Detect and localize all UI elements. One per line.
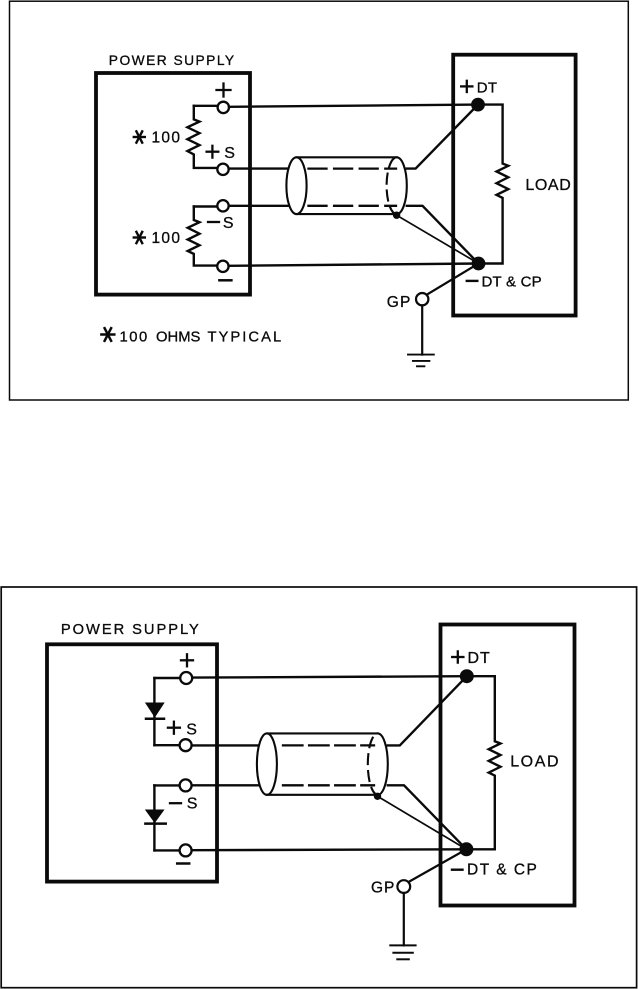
svg-text:LOAD: LOAD [525,177,571,194]
figure 1 border frame [10,1,629,400]
svg-text:DT: DT [477,79,498,96]
wire +S to cable [229,167,288,169]
cable shield cylinder [286,157,406,214]
note *100 OHMS TYPICAL [101,328,114,341]
label -S [208,221,219,223]
svg-text:DT & CP: DT & CP [467,862,538,879]
wire + to +DT fig2 [192,676,467,677]
svg-text:100: 100 [152,130,182,147]
label + fig2 [181,654,193,666]
svg-text:GP: GP [371,880,395,897]
power supply box PS2 [47,644,217,881]
label +DT fig2 [452,651,463,662]
conductor (dashed, -S line inside cable) fig2 [283,784,374,786]
node +DT fig2 (filled) [460,669,474,683]
label -DT&CP fig2 [452,869,463,871]
terminal GP fig2 (open circle) [397,880,410,893]
terminal +S (open circle) [217,164,228,175]
svg-text:S: S [224,145,235,162]
wire cable top conductor to +DT fig2 [388,676,467,745]
svg-text:DT & CP: DT & CP [482,273,542,290]
svg-text:LOAD: LOAD [510,753,560,770]
terminal -S fig2 (open circle) [180,779,192,791]
diode D1 (upper) [146,678,179,745]
load box [453,55,575,316]
label - fig2 [177,862,189,865]
terminal - (open circle) [217,261,228,272]
label + [217,84,231,97]
wire -S to cable [229,205,288,207]
wire +S to cable fig2 [192,744,258,746]
wire cable bottom conductor to -DT&CP [407,206,479,264]
label +S [207,146,219,158]
wire GP to ground fig2 [403,893,405,945]
terminal +S fig2 (open circle) [180,739,192,751]
conductor (dashed, +S line inside cable) fig2 [283,744,374,746]
load resistor RL2 [466,676,500,849]
terminal + fig2 (open circle) [180,672,192,684]
wire -S to cable fig2 [192,784,258,786]
terminal GP (open circle) [416,293,428,305]
shield junction node fig2 [374,793,381,800]
wire -S terminal to resistor branch [194,205,217,207]
svg-text:100: 100 [152,230,182,247]
svg-text:S: S [186,721,197,738]
wire cable top conductor to +DT [407,105,478,169]
wire GP to -DT&CP fig2 [408,849,466,882]
svg-text:POWER SUPPLY: POWER SUPPLY [109,53,236,68]
resistor R1 (100 ohm, upper) [187,106,217,168]
figure 2 border frame [1,587,636,988]
label +DT [461,81,472,92]
svg-text:100OHMSTYPICAL: 100OHMSTYPICAL [120,329,284,345]
wire GP to -DT&CP [427,264,479,295]
cable shield cylinder fig2 [257,733,388,794]
terminal + (open circle) [218,102,229,113]
wire - to -DT&CP [229,264,479,266]
svg-text:S: S [187,796,198,813]
label - [219,279,231,282]
load box fig2 [441,625,575,906]
conductor (dashed, +S line inside cable) [309,167,397,169]
wire cable bottom conductor to -DT&CP fig2 [388,785,467,849]
wire + terminal to diode branch [154,677,180,679]
node -DT&CP fig2 (filled) [459,842,473,856]
label *100 (lower) [134,232,145,243]
svg-text:DT: DT [468,650,491,667]
label -S fig2 [170,802,181,804]
power supply box PS1 [96,73,250,295]
conductor (dashed, -S line inside cable) [309,205,397,207]
svg-text:POWER SUPPLY: POWER SUPPLY [61,622,201,638]
ground symbol fig2 [390,945,415,959]
label *100 (upper) [134,131,145,142]
wire shield to -DT&CP fig2 [378,796,467,849]
wire + to +DT [229,105,478,107]
diode D2 (lower) [145,785,180,850]
node +DT (filled) [471,98,485,112]
wire shield to -DT&CP [397,215,479,263]
node -DT&CP (filled) [472,257,486,271]
terminal -S (open circle) [217,200,228,211]
wire - to -DT&CP fig2 [192,848,467,851]
terminal - fig2 (open circle) [180,844,192,856]
label -DT&CP [467,280,478,282]
wire GP to ground [421,305,423,354]
resistor R2 (100 ohm, lower) [188,207,217,266]
ground symbol [408,355,434,367]
shield junction node [393,212,400,219]
svg-text:GP: GP [387,294,412,311]
svg-text:S: S [223,215,234,232]
load resistor RL1 [478,105,508,264]
label +S fig2 [168,722,180,734]
wire + terminal to resistor branch [194,105,217,107]
